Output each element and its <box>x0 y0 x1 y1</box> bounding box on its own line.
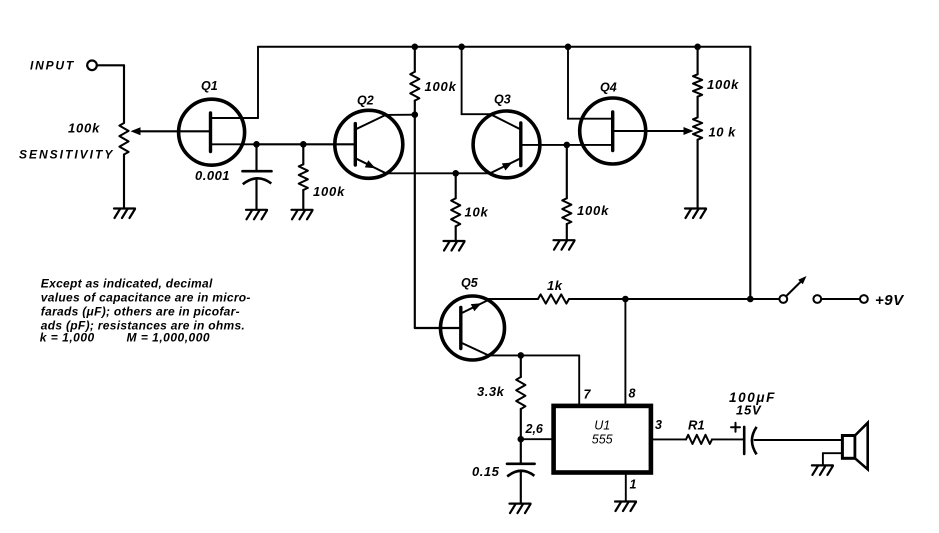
node junction Q3 base <box>564 142 571 149</box>
node rail junction Q4 <box>565 44 572 51</box>
wire pin 3 <box>651 438 686 440</box>
svg-text:10k: 10k <box>465 205 489 220</box>
wire Q4 drain riser <box>567 47 569 119</box>
wire pot to ground <box>123 155 125 208</box>
transistor Q5 <box>441 296 505 360</box>
wire Q1 drain tap <box>211 117 259 119</box>
ground pot <box>114 207 135 209</box>
wire Q5 to 1k <box>488 298 538 300</box>
capacitor 100uF 15V <box>743 427 746 454</box>
switch terminal B <box>813 295 821 303</box>
wire Q3 collector <box>490 114 520 129</box>
svg-text:100k: 100k <box>707 77 739 92</box>
node junction Q1 source / C1 <box>253 141 260 148</box>
wire C 0.001 to ground <box>255 180 257 210</box>
wire to switch <box>625 298 779 300</box>
svg-text:555: 555 <box>592 433 613 447</box>
ground R 100k Q4 <box>554 239 575 241</box>
resistor 3.3k <box>520 355 522 377</box>
wire junction to C 0.001 <box>255 144 257 171</box>
ground right chain <box>685 207 706 209</box>
transistor Q4 (FET) <box>580 98 646 164</box>
wire Q1 source to Q2 base <box>257 143 356 145</box>
label plus <box>731 426 740 428</box>
wire C2 to speaker <box>755 439 843 441</box>
wire pin 1 <box>625 473 627 501</box>
node rail junction R2 <box>412 44 419 51</box>
resistor R1 <box>686 435 712 444</box>
svg-text:100k: 100k <box>313 184 345 199</box>
svg-text:0.001: 0.001 <box>195 168 230 183</box>
svg-text:M = 1,000,000: M = 1,000,000 <box>127 331 211 345</box>
ground C 0.001 <box>246 209 267 211</box>
svg-text:100k: 100k <box>577 203 609 218</box>
wire Q3 base <box>521 144 567 146</box>
switch terminal A <box>779 295 787 303</box>
svg-text:7: 7 <box>584 388 592 402</box>
capacitor 0.001 <box>243 170 272 173</box>
svg-text:3: 3 <box>655 418 662 432</box>
svg-text:SENSITIVITY: SENSITIVITY <box>19 148 114 162</box>
wire right rail riser <box>749 47 751 299</box>
node junction rail/+9V <box>747 296 754 303</box>
wire Q5 bottom lead <box>461 343 489 356</box>
switch lever arrowhead <box>798 276 806 284</box>
resistor 100k (Q2 collector) <box>414 47 416 72</box>
svg-text:Q4: Q4 <box>600 81 617 95</box>
resistor 100k (right chain) <box>697 47 699 75</box>
wire Q5 to pin7 <box>489 354 580 356</box>
wire top supply rail <box>258 46 750 48</box>
wire Q2 emitter <box>355 158 385 173</box>
capacitor 0.15 <box>507 462 535 465</box>
svg-text:3.3k: 3.3k <box>477 384 505 399</box>
wire C 0.15 to ground <box>520 472 522 503</box>
svg-text:+9V: +9V <box>875 292 905 309</box>
svg-text:100k: 100k <box>425 79 457 94</box>
svg-text:k = 1,000: k = 1,000 <box>40 331 95 345</box>
potentiometer 100k SENSITIVITY <box>119 123 128 155</box>
svg-text:Q5: Q5 <box>461 276 479 290</box>
Q2 emitter arrow <box>365 160 376 168</box>
ground pin 1 <box>615 500 636 502</box>
resistor 10k (emitters) <box>455 173 457 198</box>
wire emitter rail <box>385 172 491 174</box>
wire speaker to ground <box>823 452 843 454</box>
svg-text:15V: 15V <box>736 403 762 418</box>
node rail junction Q3 <box>458 44 465 51</box>
svg-text:10 k: 10 k <box>709 125 737 140</box>
svg-text:values of capacitance are in m: values of capacitance are in micro- <box>41 291 251 305</box>
svg-text:Except as indicated, decimal: Except as indicated, decimal <box>41 277 213 291</box>
wire Q1 source tap <box>211 143 257 145</box>
node junction Q2 collector <box>412 111 419 118</box>
node junction R 100k <box>300 141 307 148</box>
ground R 100k <box>292 209 313 211</box>
wire Q4 source tap <box>567 144 613 146</box>
wire junction to C 0.15 <box>520 439 522 464</box>
node junction 10k <box>452 170 459 177</box>
wire input to potentiometer <box>97 64 124 66</box>
op-amp U1 555 timer <box>554 406 651 473</box>
wire switch to +9V terminal <box>821 298 860 300</box>
wire Q1 drain riser <box>257 47 259 118</box>
wire pin2,6 stub <box>521 438 554 440</box>
node +9V terminal <box>860 295 868 303</box>
svg-text:8: 8 <box>629 387 636 401</box>
node junction pin8/+9V <box>622 296 629 303</box>
node rail junction right chain <box>694 44 701 51</box>
svg-text:U1: U1 <box>594 419 610 433</box>
wiper arrowhead <box>131 127 141 135</box>
wire Q5 top lead <box>461 300 489 314</box>
resistor 100k (Q4 gate bias) <box>566 145 568 198</box>
wire R1 to C2 <box>712 438 744 440</box>
ground R 10k <box>444 240 465 242</box>
wire pot wiper to Q1 gate <box>138 130 211 132</box>
wire Q2 collector to Q5 base <box>414 115 416 328</box>
resistor 1k <box>538 294 569 303</box>
svg-text:INPUT: INPUT <box>30 59 75 73</box>
wire pin 8 <box>624 299 626 406</box>
svg-text:0.15: 0.15 <box>472 464 500 479</box>
transistor Q3 <box>473 111 540 178</box>
svg-text:100k: 100k <box>68 121 100 136</box>
svg-text:Q2: Q2 <box>357 94 374 108</box>
speaker <box>842 436 855 459</box>
ground speaker <box>812 464 833 466</box>
potentiometer 10k <box>693 117 702 139</box>
svg-text:Q3: Q3 <box>494 93 511 107</box>
node INPUT terminal <box>87 61 97 71</box>
Q3 emitter arrow <box>502 162 513 170</box>
svg-text:R1: R1 <box>688 418 705 433</box>
pot wiper arrowhead 10k <box>684 127 694 135</box>
svg-text:2,6: 2,6 <box>525 422 544 436</box>
node junction pin2,6 <box>518 436 525 443</box>
resistor 100k (Q1 load) <box>302 144 304 164</box>
wire Q2 collector <box>355 115 385 130</box>
switch lever <box>786 281 802 297</box>
svg-text:1: 1 <box>630 478 637 492</box>
transistor Q1 (FET) <box>179 99 245 165</box>
wire 1k to junction <box>569 298 625 300</box>
svg-text:1k: 1k <box>547 278 563 293</box>
svg-text:Q1: Q1 <box>201 79 218 93</box>
wire Q3 collector riser <box>461 47 463 114</box>
svg-text:farads (μF); others are in pic: farads (μF); others are in picofar- <box>41 304 240 318</box>
wire Q4 drain tap <box>568 118 613 120</box>
Q5 arrow <box>471 303 482 311</box>
wire Q4 gate to 10k pot <box>613 130 686 132</box>
node junction 3.3k <box>518 352 525 359</box>
transistor Q2 <box>335 110 403 178</box>
ground C 0.15 <box>510 503 531 505</box>
wire Q3 emitter <box>491 158 521 173</box>
